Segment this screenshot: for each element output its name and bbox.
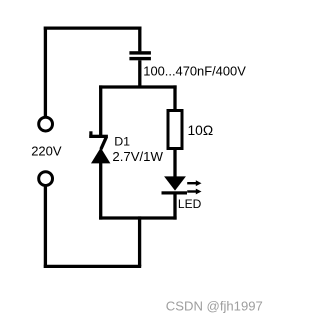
LED emission arrow 2 [187, 189, 201, 195]
wire top horizontal [44, 26, 142, 29]
terminal T1 (upper 220V terminal) [39, 117, 53, 131]
wire left upper vertical [44, 27, 47, 118]
LED emission arrow 1 [187, 180, 201, 186]
resistor R1 [168, 111, 182, 149]
wire right branch upper [173, 85, 176, 110]
diode D1 (zener) [89, 131, 110, 163]
svg-text:D1: D1 [114, 135, 130, 149]
terminal T2 (lower 220V terminal) [39, 172, 53, 186]
wire left lower vertical [44, 186, 47, 269]
wire bottom stem vertical [138, 216, 141, 266]
wire node bottom horizontal [99, 216, 177, 219]
LED D2 [162, 176, 188, 194]
wire resistor-to-LED [173, 149, 176, 178]
svg-text:2.7V/1W: 2.7V/1W [112, 149, 163, 164]
wire left branch upper [99, 85, 102, 136]
capacitor C1 [129, 27, 151, 89]
wire bottom horizontal [44, 265, 141, 268]
svg-text:LED: LED [178, 197, 202, 211]
wire left branch lower [99, 162, 102, 220]
wire node top horizontal [99, 85, 177, 88]
wire right branch lower [173, 194, 176, 219]
svg-text:220V: 220V [31, 144, 62, 159]
svg-text:CSDN @fjh1997: CSDN @fjh1997 [166, 298, 263, 313]
svg-text:10Ω: 10Ω [188, 123, 214, 138]
svg-text:100...470nF/400V: 100...470nF/400V [143, 63, 246, 78]
